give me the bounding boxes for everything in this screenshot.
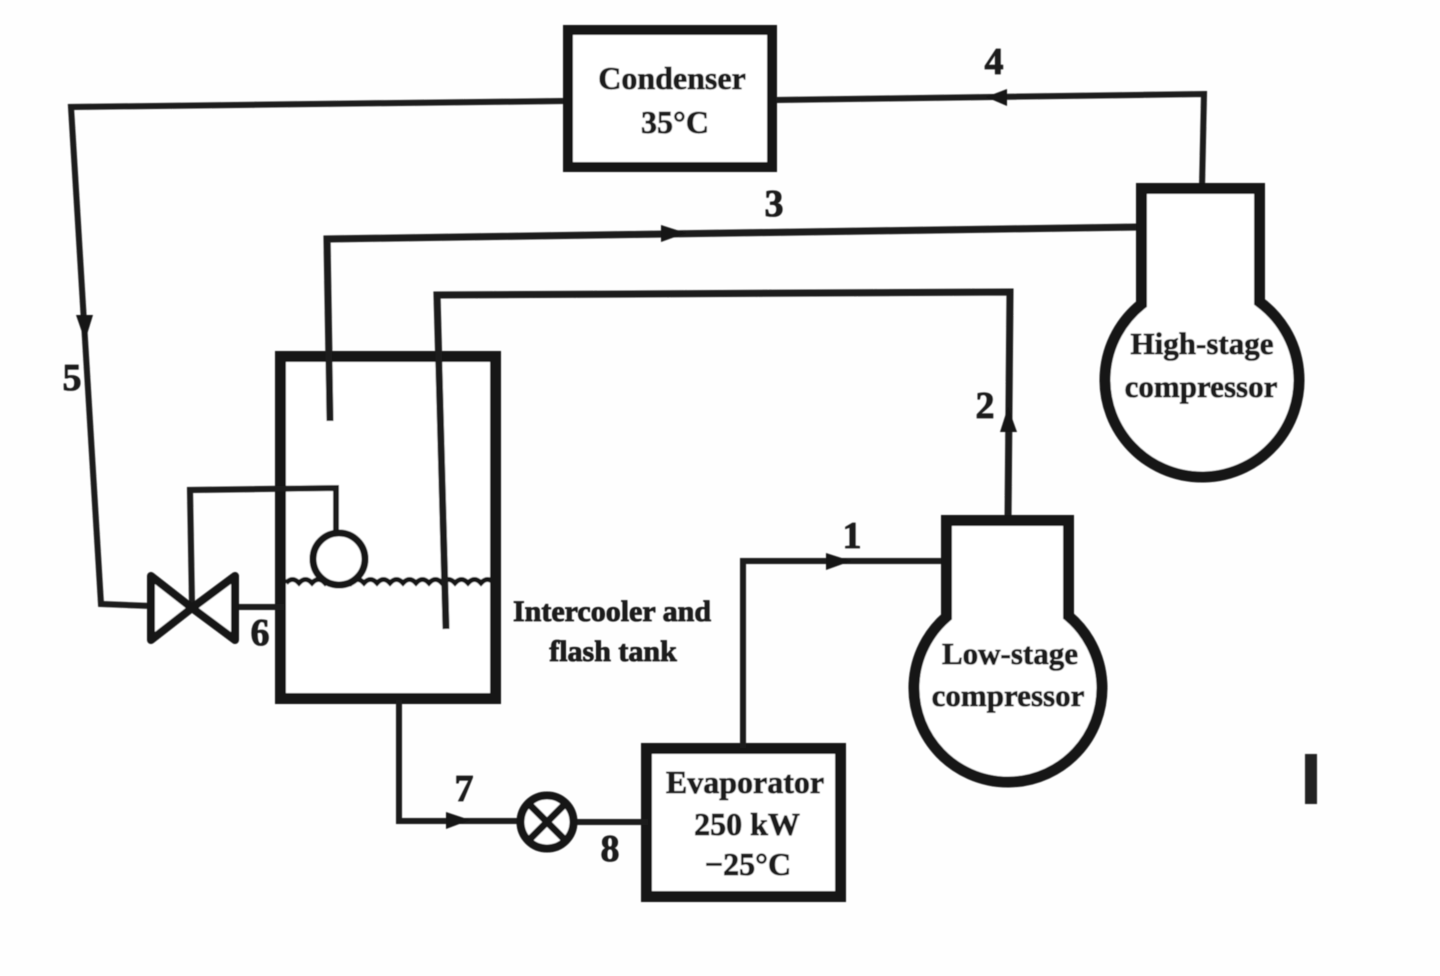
svg-text:5: 5 [63,357,82,399]
svg-text:compressor: compressor [1125,369,1278,404]
svg-text:1: 1 [843,515,862,557]
svg-text:High-stage: High-stage [1131,326,1274,361]
svg-text:compressor: compressor [932,678,1085,713]
svg-text:250 kW: 250 kW [694,806,800,842]
svg-text:flash tank: flash tank [549,635,677,668]
svg-text:Low-stage: Low-stage [942,636,1078,671]
svg-text:7: 7 [455,768,474,810]
svg-text:Condenser: Condenser [598,60,746,96]
svg-text:4: 4 [985,41,1004,83]
svg-text:Evaporator: Evaporator [666,764,824,800]
svg-text:35°C: 35°C [641,104,709,140]
svg-text:2: 2 [976,385,995,427]
svg-text:8: 8 [601,828,620,870]
svg-text:3: 3 [765,183,784,225]
svg-text:−25°C: −25°C [705,846,791,882]
svg-text:6: 6 [251,612,270,654]
svg-text:Intercooler and: Intercooler and [513,595,711,628]
